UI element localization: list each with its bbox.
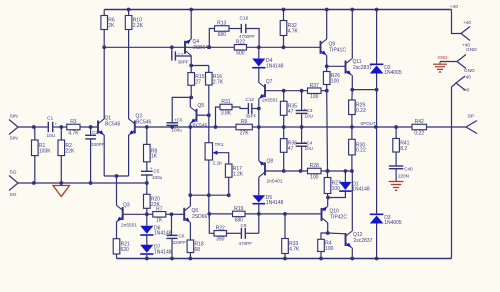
svg-text:GND: GND xyxy=(464,68,475,74)
svg-text:R37: R37 xyxy=(310,83,319,89)
wire Q6 base xyxy=(172,213,185,215)
svg-text:BC546: BC546 xyxy=(105,122,121,128)
svg-text:R28: R28 xyxy=(310,163,319,169)
svg-text:4.7K: 4.7K xyxy=(289,247,300,253)
resistor R20 xyxy=(144,183,161,216)
diode D6 xyxy=(140,214,172,245)
resistor R10 xyxy=(125,8,143,30)
svg-text:10U: 10U xyxy=(305,146,313,151)
capacitor C1 xyxy=(47,116,58,140)
transistor Q2 xyxy=(129,30,152,177)
svg-text:R13: R13 xyxy=(217,21,226,27)
resistor R41 xyxy=(393,127,410,166)
svg-text:100u: 100u xyxy=(152,175,163,180)
svg-text:C12: C12 xyxy=(246,97,255,102)
svg-text:Q9: Q9 xyxy=(329,42,336,48)
svg-text:1.2K: 1.2K xyxy=(233,171,244,177)
resistor R27 xyxy=(324,178,341,200)
svg-text:220N: 220N xyxy=(398,173,409,178)
-40V bottom supply rail xyxy=(117,258,452,260)
svg-text:GND: GND xyxy=(466,47,477,53)
resistor R9 xyxy=(236,119,252,136)
svg-text:R22: R22 xyxy=(216,225,225,231)
resistor R6 xyxy=(101,10,115,50)
trimmer TR1 xyxy=(205,115,229,195)
resistor R30 xyxy=(349,127,366,173)
svg-text:C4: C4 xyxy=(307,141,313,146)
capacitor C40 xyxy=(389,166,413,182)
svg-text:100: 100 xyxy=(331,79,340,85)
transistor Q9 xyxy=(321,8,347,69)
resistor R36 xyxy=(280,127,297,171)
resistor R13 xyxy=(209,21,229,48)
resistor R28 xyxy=(308,163,330,180)
svg-text:1N4148: 1N4148 xyxy=(352,187,370,193)
resistor R23 xyxy=(214,225,227,242)
svg-text:Q1: Q1 xyxy=(105,116,112,122)
svg-text:R22: R22 xyxy=(236,39,245,45)
wire upper bias rail xyxy=(265,89,308,93)
svg-text:2n5551: 2n5551 xyxy=(121,223,137,229)
diode D7 xyxy=(140,244,172,260)
svg-text:1N4005: 1N4005 xyxy=(384,70,402,76)
svg-text:R9: R9 xyxy=(241,119,248,125)
wire lower drive line xyxy=(209,212,321,216)
svg-text:C9: C9 xyxy=(241,223,247,228)
capacitor C3 xyxy=(296,91,313,127)
diode D3 xyxy=(370,127,402,260)
wire R7 bias xyxy=(147,213,153,215)
svg-text:Q5: Q5 xyxy=(198,103,205,109)
transistor Q8 xyxy=(259,127,283,195)
svg-text:500: 500 xyxy=(236,51,245,57)
svg-text:8.2: 8.2 xyxy=(400,146,407,152)
svg-text:C40: C40 xyxy=(404,167,413,172)
resistor R17 xyxy=(225,164,243,195)
svg-text:100: 100 xyxy=(310,94,319,100)
wire VBE multiplier top xyxy=(190,193,230,216)
svg-text:22K: 22K xyxy=(65,148,75,154)
svg-text:1N4148: 1N4148 xyxy=(266,200,284,206)
svg-text:C16: C16 xyxy=(240,16,249,22)
svg-text:0.22: 0.22 xyxy=(414,130,424,136)
svg-text:4700PF: 4700PF xyxy=(239,34,255,39)
svg-text:47: 47 xyxy=(288,109,294,115)
svg-text:2.2K: 2.2K xyxy=(213,161,224,167)
svg-text:Q6: Q6 xyxy=(192,208,199,214)
svg-text:47: 47 xyxy=(288,146,294,152)
svg-text:Q8: Q8 xyxy=(267,159,274,165)
transistor Q10 xyxy=(322,198,348,235)
svg-text:SIN: SIN xyxy=(10,136,19,142)
diode D1 xyxy=(328,171,370,198)
resistor R7 xyxy=(153,206,174,223)
wire lower bias rail xyxy=(265,169,308,173)
svg-text:Q2: Q2 xyxy=(136,114,143,120)
svg-text:100: 100 xyxy=(310,174,319,180)
resistor R33 xyxy=(282,214,300,261)
transistor Q6 xyxy=(184,195,210,240)
svg-text:100: 100 xyxy=(332,186,341,192)
svg-text:R3: R3 xyxy=(70,119,77,125)
diode D4 xyxy=(252,47,284,82)
svg-text:SG: SG xyxy=(10,192,17,198)
transistor Q1 xyxy=(98,47,121,176)
resistor R29 xyxy=(349,90,366,127)
resistor R32 xyxy=(280,8,298,48)
wire Q1 collector to Q9 base xyxy=(104,45,320,49)
+40V top supply rail xyxy=(104,9,451,11)
svg-text:330PF: 330PF xyxy=(91,142,105,147)
resistor R15 xyxy=(188,73,205,100)
resistor R22 xyxy=(234,39,246,56)
wire top-right corner down to +40 connector xyxy=(450,4,461,34)
capacitor C8 xyxy=(166,214,186,260)
resistor R8 xyxy=(144,127,158,162)
svg-text:10U: 10U xyxy=(305,113,313,118)
resistor R19 xyxy=(233,206,246,223)
transistor Q5 xyxy=(190,97,210,128)
wire LTP tail xyxy=(104,174,128,202)
svg-text:R7: R7 xyxy=(156,206,163,212)
transistor Q4 xyxy=(185,8,211,73)
svg-text:2K: 2K xyxy=(108,23,115,29)
svg-text:10U: 10U xyxy=(47,133,56,139)
svg-text:100: 100 xyxy=(325,246,334,252)
svg-text:2sc2837: 2sc2837 xyxy=(353,65,372,71)
connector -40 terminal xyxy=(456,74,471,93)
svg-text:+40: +40 xyxy=(462,43,470,48)
svg-text:0.22: 0.22 xyxy=(356,148,366,154)
svg-text:C3: C3 xyxy=(307,108,313,113)
wire Q5 emitter to Q6 collector xyxy=(188,125,192,197)
capacitor C2 xyxy=(85,127,105,183)
svg-text:1K: 1K xyxy=(151,154,158,160)
resistor R26 xyxy=(323,66,340,90)
svg-text:BC546: BC546 xyxy=(136,120,152,126)
svg-text:3.8K: 3.8K xyxy=(221,110,232,116)
svg-text:R31: R31 xyxy=(221,99,230,105)
svg-text:620: 620 xyxy=(121,247,130,253)
svg-text:C5: C5 xyxy=(154,169,160,174)
wire lower bias to R30 xyxy=(328,169,352,173)
ground GND2 symbol xyxy=(433,55,457,72)
svg-text:27K: 27K xyxy=(240,130,250,136)
svg-text:Q11: Q11 xyxy=(353,59,362,65)
wire Q11 base xyxy=(327,65,346,67)
connector SG input xyxy=(9,170,18,199)
wire bias chain vertical xyxy=(326,91,330,178)
resistor R35 xyxy=(280,91,297,127)
svg-text:39PF: 39PF xyxy=(178,60,189,65)
resistor R2 xyxy=(58,127,75,183)
wire R15 R16 top xyxy=(191,66,209,73)
svg-text:R42: R42 xyxy=(415,119,424,125)
transistor Q7 xyxy=(257,79,278,127)
svg-text:C1: C1 xyxy=(47,116,53,122)
svg-text:Q12: Q12 xyxy=(353,232,363,238)
svg-text:1K: 1K xyxy=(156,218,163,224)
svg-text:+: + xyxy=(55,123,58,128)
svg-text:-40: -40 xyxy=(464,74,471,80)
svg-text:+40: +40 xyxy=(463,20,471,25)
svg-text:2.7K: 2.7K xyxy=(213,79,224,85)
svg-text:SG: SG xyxy=(10,170,17,176)
capacitor C6 xyxy=(166,97,191,132)
capacitor C7 xyxy=(172,47,191,64)
wire Q12 base xyxy=(328,232,346,235)
svg-text:TIP41C: TIP41C xyxy=(329,48,346,54)
resistor R31 xyxy=(216,99,249,127)
svg-text:39PF: 39PF xyxy=(246,114,257,119)
wire main signal line xyxy=(135,121,466,129)
svg-text:SPOUT: SPOUT xyxy=(360,121,375,126)
wire right-side -40 feed xyxy=(452,83,457,259)
svg-text:0.22: 0.22 xyxy=(356,108,366,114)
ground input triangle symbol xyxy=(53,183,70,197)
resistor R18 xyxy=(187,240,204,260)
svg-text:Q7: Q7 xyxy=(266,79,273,85)
svg-text:GND:: GND: xyxy=(438,55,449,60)
svg-text:-40: -40 xyxy=(463,88,470,94)
svg-text:+40: +40 xyxy=(450,4,458,9)
wire Q11 emitter to D2 xyxy=(352,88,378,92)
svg-text:2sc2837: 2sc2837 xyxy=(354,238,373,244)
svg-text:68: 68 xyxy=(195,247,201,253)
wire signal-ground rail xyxy=(18,181,149,185)
resistor R1 xyxy=(32,127,52,183)
svg-text:2SD667: 2SD667 xyxy=(192,214,210,220)
capacitor C16 xyxy=(229,16,259,48)
resistor R42 xyxy=(412,119,427,136)
wire input signal xyxy=(18,125,98,129)
svg-text:2.2K: 2.2K xyxy=(133,23,144,29)
svg-text:C8: C8 xyxy=(179,234,185,239)
svg-text:Q3: Q3 xyxy=(123,203,130,209)
connector SIN input xyxy=(9,114,18,142)
svg-text:1N4148: 1N4148 xyxy=(154,250,172,256)
svg-text:4.7K: 4.7K xyxy=(68,130,79,136)
resistor R16 xyxy=(206,72,224,115)
ground output symbol xyxy=(389,182,404,191)
svg-text:Q4: Q4 xyxy=(193,39,200,45)
svg-text:2SB649: 2SB649 xyxy=(193,45,211,51)
svg-text:100K: 100K xyxy=(39,148,51,154)
capacitor C5 xyxy=(141,162,163,183)
svg-text:2n5551: 2n5551 xyxy=(262,98,278,104)
capacitor C9 xyxy=(239,223,253,246)
diode D5 xyxy=(252,195,283,214)
capacitor C4 xyxy=(296,127,313,171)
branch R23 C9 xyxy=(209,214,258,233)
resistor R3 xyxy=(67,119,80,136)
transistor Q12 xyxy=(346,171,373,260)
svg-text:220PF: 220PF xyxy=(173,240,187,245)
svg-text:Q10: Q10 xyxy=(330,209,340,215)
transistor Q3 xyxy=(117,202,147,239)
capacitor C12 xyxy=(246,97,259,119)
svg-text:1N4148: 1N4148 xyxy=(266,63,284,69)
svg-text:C7: C7 xyxy=(178,53,184,58)
svg-text:470PF: 470PF xyxy=(239,241,253,246)
svg-text:+C6: +C6 xyxy=(174,118,183,123)
svg-text:2n5401: 2n5401 xyxy=(267,178,283,184)
connector GND terminal xyxy=(457,47,477,74)
resistor R21 xyxy=(113,239,130,259)
svg-text:390: 390 xyxy=(216,237,225,243)
resistor R4 xyxy=(318,233,334,260)
diode D2 xyxy=(370,8,402,127)
svg-text:1N4005: 1N4005 xyxy=(384,220,402,226)
svg-text:TR1: TR1 xyxy=(215,142,224,148)
resistor R37 xyxy=(308,83,329,100)
svg-text:4.7K: 4.7K xyxy=(288,29,299,35)
transistor Q11 xyxy=(346,8,373,92)
svg-text:SP: SP xyxy=(468,114,475,120)
connector SP output xyxy=(466,114,477,134)
connector +40 terminal xyxy=(461,20,471,48)
svg-text:TIP42C: TIP42C xyxy=(330,215,347,221)
svg-text:680: 680 xyxy=(218,32,227,38)
svg-text:R19: R19 xyxy=(234,206,243,212)
svg-text:27: 27 xyxy=(195,80,201,86)
svg-text:SIN: SIN xyxy=(10,114,19,120)
